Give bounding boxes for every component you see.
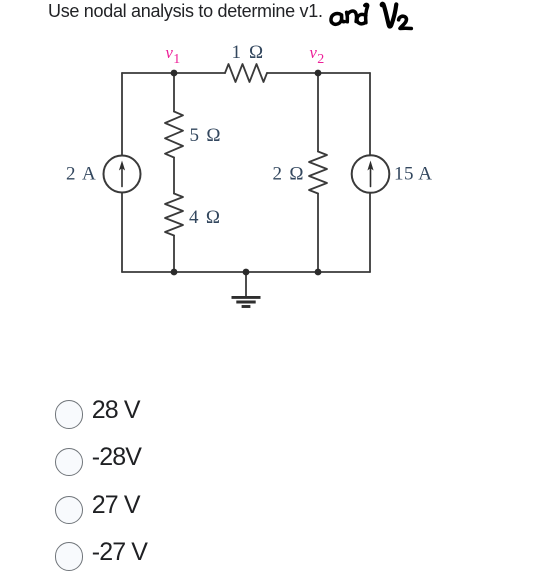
- wire v1 branch lower: [173, 236, 175, 273]
- svg-text:1 Ω: 1 Ω: [232, 42, 265, 63]
- radio option 4 circle: [55, 542, 84, 571]
- svg-text:2 Ω: 2 Ω: [273, 163, 305, 184]
- svg-text:4 Ω: 4 Ω: [189, 207, 221, 228]
- resistor R1 1-ohm (top horizontal): [225, 64, 267, 82]
- wire left vertical upper: [121, 73, 123, 156]
- svg-text:v1: v1: [166, 43, 181, 67]
- ground symbol bars: [232, 297, 261, 306]
- current source I2 15A circle: [352, 155, 390, 193]
- handwritten annotation "and V2": [331, 4, 411, 29]
- radio option 3 circle: [55, 496, 84, 525]
- resistor R2 5-ohm: [165, 112, 183, 158]
- svg-text:15 A: 15 A: [394, 163, 432, 184]
- wire right vertical upper: [369, 73, 371, 156]
- wire between 5-ohm and 4-ohm: [173, 158, 175, 194]
- wire top-right segment: [267, 72, 370, 74]
- wire left vertical lower: [121, 193, 123, 273]
- radio option 4 label -27 V: [92, 538, 147, 567]
- radio option 1 label 28 V: [92, 396, 140, 425]
- svg-text:v2: v2: [310, 43, 325, 67]
- radio option 1 circle: [55, 400, 84, 429]
- node junction dot bottom-left: [171, 269, 178, 276]
- current source I1 2A circle: [104, 156, 141, 193]
- handwritten V2: [382, 4, 412, 29]
- svg-text:5 Ω: 5 Ω: [190, 125, 222, 146]
- ground stub wire: [245, 272, 247, 296]
- arrow of source I2: [367, 161, 373, 187]
- wire right vertical lower: [369, 193, 371, 272]
- wire v1 branch upper: [173, 73, 175, 112]
- title text: [48, 1, 323, 22]
- wire top-left segment: [122, 72, 225, 74]
- wire v2 branch lower: [317, 194, 319, 273]
- handwritten word and: [331, 4, 368, 24]
- resistor R4 2-ohm: [309, 152, 327, 194]
- node junction dot v2: [315, 70, 322, 77]
- node junction dot v1: [171, 70, 178, 77]
- radio option 2 circle: [55, 448, 84, 477]
- wire v2 branch upper: [317, 73, 319, 152]
- radio option 2 label -28V: [92, 443, 141, 472]
- arrow of source I1: [119, 161, 125, 187]
- node junction dot ground: [243, 269, 250, 276]
- wire bottom: [122, 271, 370, 273]
- svg-text:2 A: 2 A: [66, 163, 97, 184]
- node junction dot bottom-right: [315, 269, 322, 276]
- resistor R3 4-ohm: [165, 194, 183, 236]
- radio option 3 label 27 V: [92, 491, 140, 520]
